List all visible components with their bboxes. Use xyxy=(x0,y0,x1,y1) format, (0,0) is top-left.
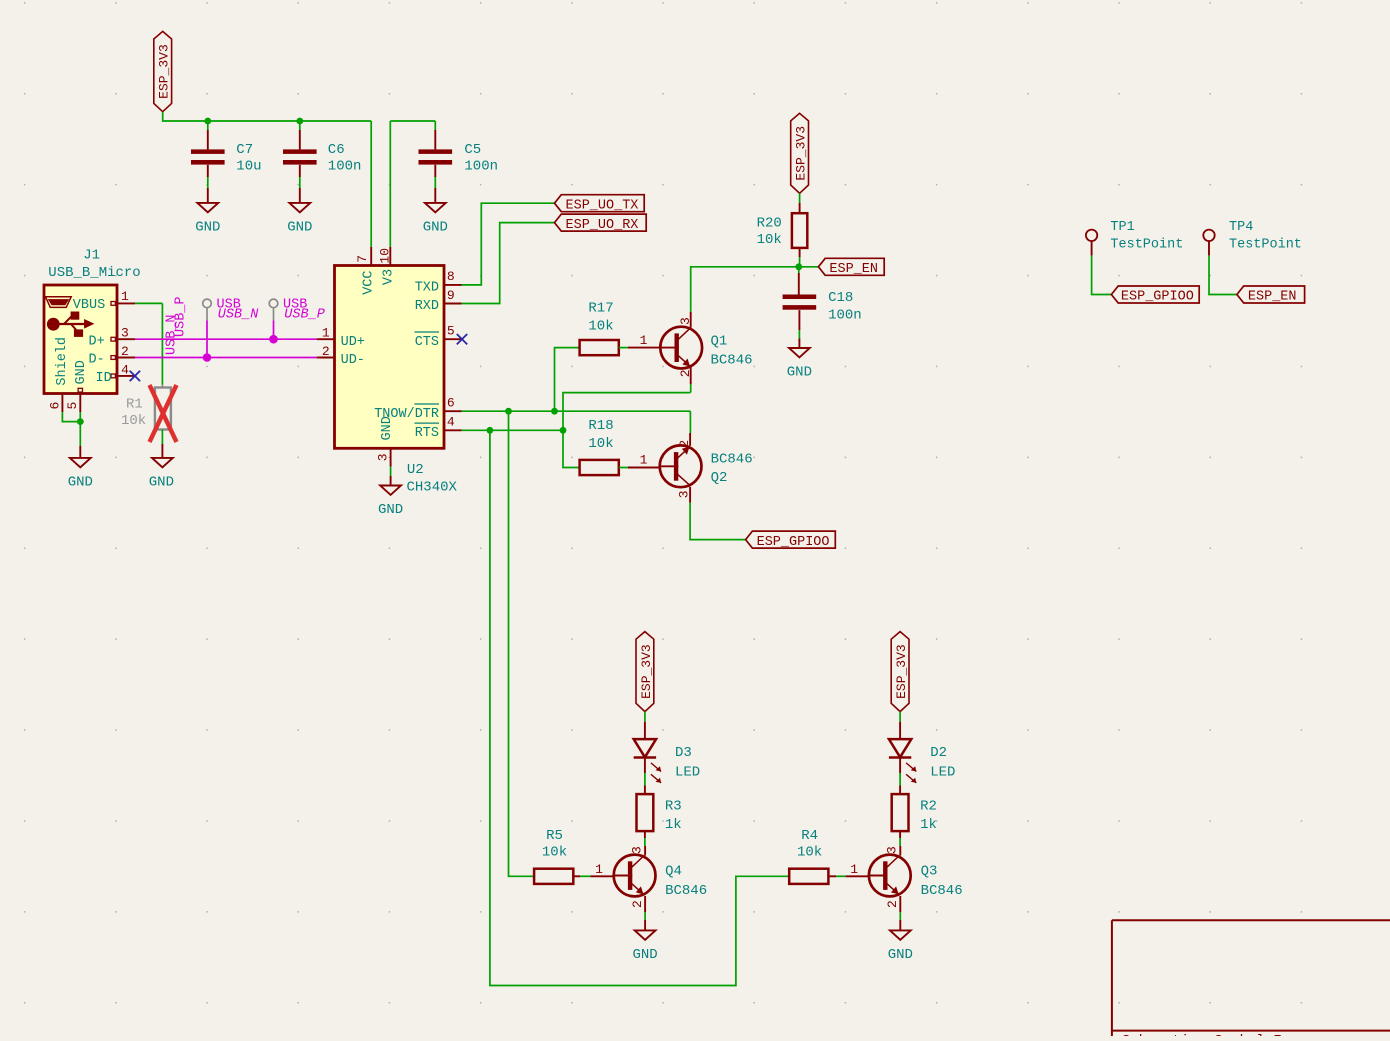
svg-text:5: 5 xyxy=(65,402,80,410)
U2 pin 9 RXD xyxy=(444,303,462,305)
wire TP1 to ESP_GPIO0 xyxy=(1091,241,1093,256)
J1 pin 3 D+ xyxy=(117,338,135,340)
junction RTS/R18 xyxy=(560,427,567,434)
svg-text:GND: GND xyxy=(423,220,448,236)
svg-text:10k: 10k xyxy=(121,413,146,429)
hierarchical label ESP_GPIOO xyxy=(1111,286,1199,305)
svg-text:GND: GND xyxy=(287,220,312,236)
svg-text:GND: GND xyxy=(380,416,395,440)
wire Q1 emitter to RTS to R18 xyxy=(563,393,690,468)
svg-text:Q2: Q2 xyxy=(711,470,728,486)
capacitor C6 xyxy=(283,142,361,175)
J1 pin 6 Shield xyxy=(61,394,63,413)
svg-text:USB_B_Micro: USB_B_Micro xyxy=(48,265,140,281)
svg-text:U2: U2 xyxy=(407,462,424,478)
svg-text:100n: 100n xyxy=(464,159,498,175)
resistor R20 xyxy=(757,213,808,248)
hierarchical label ESP_EN xyxy=(818,258,884,277)
U2 pin 6 TNOW/DTR xyxy=(444,410,462,412)
svg-text:Q1: Q1 xyxy=(711,334,728,350)
svg-text:1: 1 xyxy=(121,289,129,304)
wire R17 to Q1 base xyxy=(619,347,628,349)
svg-text:R3: R3 xyxy=(665,799,682,815)
DNP cross on R1 xyxy=(150,385,177,442)
J1 usb trident icon xyxy=(47,312,95,337)
power flag PWR02 ESP_3V3 xyxy=(791,113,809,193)
junction ESP_EN xyxy=(795,263,802,270)
wire D+ net USB_P xyxy=(135,338,317,340)
svg-text:C6: C6 xyxy=(328,142,345,158)
ground C6 xyxy=(287,203,312,236)
no-connect flag xyxy=(130,371,140,381)
svg-text:USB_N: USB_N xyxy=(218,308,259,323)
resistor R2 xyxy=(892,794,937,833)
svg-text:LED: LED xyxy=(675,764,700,780)
hierarchical label ESP_GPIOO xyxy=(746,531,836,550)
svg-text:GND: GND xyxy=(787,365,812,381)
wire C6 top lead xyxy=(299,121,301,130)
svg-text:10k: 10k xyxy=(588,436,613,452)
svg-text:10: 10 xyxy=(377,248,392,264)
capacitor C18 xyxy=(783,290,862,323)
svg-text:ESP_3V3: ESP_3V3 xyxy=(894,644,909,699)
svg-text:GND: GND xyxy=(195,220,220,236)
svg-text:BC846: BC846 xyxy=(711,452,753,468)
power flag PWR03 ESP_3V3 xyxy=(636,632,654,712)
svg-text:RXD: RXD xyxy=(415,299,439,314)
svg-text:9: 9 xyxy=(447,288,455,303)
wire R18 to Q2 base xyxy=(619,467,628,469)
wire junction to label xyxy=(799,266,819,268)
wire VBUS to R1 xyxy=(135,302,162,304)
resistor R17 xyxy=(580,301,619,356)
svg-text:100n: 100n xyxy=(828,307,862,323)
svg-text:Q3: Q3 xyxy=(921,864,938,880)
transistor Q2 BC846 xyxy=(660,445,702,487)
svg-text:TXD: TXD xyxy=(415,280,439,295)
svg-text:C5: C5 xyxy=(464,142,481,158)
svg-text:3: 3 xyxy=(629,846,644,854)
svg-text:R5: R5 xyxy=(546,828,563,844)
svg-text:ESP_3V3: ESP_3V3 xyxy=(794,126,809,181)
wire DTR net xyxy=(462,410,691,412)
resistor R5 xyxy=(534,828,573,884)
svg-text:ESP_UO_RX: ESP_UO_RX xyxy=(566,218,639,233)
resistor R18 xyxy=(580,418,619,475)
junction USB_N xyxy=(203,353,212,362)
U2 pin 2 UD- xyxy=(317,357,335,359)
wire C5 top lead xyxy=(434,121,436,130)
svg-text:USB_P: USB_P xyxy=(284,308,325,323)
svg-text:C7: C7 xyxy=(236,142,253,158)
svg-text:GND: GND xyxy=(888,947,913,963)
wire R5 to Q4 base xyxy=(573,875,580,877)
svg-text:100n: 100n xyxy=(328,159,362,175)
resistor R1 (DNP) xyxy=(161,385,163,388)
svg-text:BC846: BC846 xyxy=(665,883,707,899)
wire flag to D3 xyxy=(644,712,646,722)
wire U2 gnd xyxy=(390,467,392,476)
svg-text:GND: GND xyxy=(378,502,403,518)
svg-text:TestPoint: TestPoint xyxy=(1229,238,1302,253)
svg-text:ESP_3V3: ESP_3V3 xyxy=(639,644,654,699)
svg-text:RTS: RTS xyxy=(415,426,439,441)
hierarchical label ESP_EN xyxy=(1237,286,1305,305)
svg-text:BC846: BC846 xyxy=(711,352,753,368)
resistor R4 xyxy=(789,828,828,884)
wire Q3 emitter to gnd xyxy=(899,896,901,912)
LED D2 xyxy=(889,739,956,783)
power flag PWR01 ESP_3V3 xyxy=(154,31,172,111)
svg-text:R18: R18 xyxy=(588,418,613,434)
svg-text:1: 1 xyxy=(595,862,603,877)
capacitor C7 xyxy=(191,142,262,175)
wire TP4 to ESP_EN xyxy=(1208,241,1210,256)
U2 pin 10 V3 xyxy=(389,247,391,266)
svg-text:VCC: VCC xyxy=(362,270,377,294)
wire C7 bottom lead xyxy=(207,165,209,177)
svg-text:4: 4 xyxy=(121,363,129,378)
wire flag to D2 xyxy=(899,712,901,722)
wire RTS net xyxy=(462,429,564,431)
svg-text:D3: D3 xyxy=(675,745,692,761)
U2 pin 1 UD+ xyxy=(317,338,335,340)
svg-text:LED: LED xyxy=(930,764,955,780)
title block frame xyxy=(1112,920,1390,1041)
wire junction to C18 xyxy=(798,267,800,273)
wire D- net USB_N xyxy=(135,357,317,359)
resistor R3 xyxy=(637,794,682,833)
usb port 1 USB_N xyxy=(203,298,260,358)
J1 pin 1 VBUS xyxy=(117,302,135,304)
svg-text:4: 4 xyxy=(447,415,455,430)
svg-text:ESP_GPIOO: ESP_GPIOO xyxy=(1121,290,1194,305)
svg-text:6: 6 xyxy=(47,402,62,410)
svg-text:Shield: Shield xyxy=(55,337,70,386)
svg-text:1k: 1k xyxy=(665,817,682,833)
svg-text:ESP_UO_TX: ESP_UO_TX xyxy=(566,198,639,213)
svg-text:BC846: BC846 xyxy=(921,883,963,899)
svg-text:J1: J1 xyxy=(83,248,100,264)
wire C18 to gnd xyxy=(798,310,800,330)
wire C7 top lead xyxy=(207,121,209,130)
connector J1 USB_B_Micro body xyxy=(44,285,117,394)
svg-text:ESP_EN: ESP_EN xyxy=(829,262,878,277)
ground U2 xyxy=(378,486,403,519)
svg-text:CTS: CTS xyxy=(415,335,439,350)
svg-text:10k: 10k xyxy=(757,232,782,248)
svg-text:2: 2 xyxy=(121,344,129,359)
no-connect flag xyxy=(457,334,467,344)
svg-text:R4: R4 xyxy=(801,828,818,844)
test point TP4 xyxy=(1203,220,1302,253)
svg-text:UD-: UD- xyxy=(341,353,365,368)
wire RTS long vertical to R4 xyxy=(490,430,789,985)
U2 pin 7 VCC xyxy=(370,247,372,266)
test point TP1 xyxy=(1086,220,1183,253)
wire R2 to Q3 collector xyxy=(899,831,901,838)
svg-text:D+: D+ xyxy=(89,335,105,350)
capacitor C5 xyxy=(419,142,499,175)
svg-text:10k: 10k xyxy=(542,845,567,861)
wire R3 to Q4 collector xyxy=(644,831,646,838)
svg-text:ESP_3V3: ESP_3V3 xyxy=(157,44,172,99)
transistor Q1 BC846 xyxy=(660,327,702,369)
svg-text:10k: 10k xyxy=(797,845,822,861)
svg-text:1: 1 xyxy=(322,326,330,341)
svg-text:D-: D- xyxy=(89,353,105,368)
svg-text:1: 1 xyxy=(640,453,648,468)
transistor Q3 BC846 xyxy=(869,855,911,897)
junction J1 gnd xyxy=(77,418,84,425)
svg-text:3: 3 xyxy=(121,325,129,340)
wire V3 to C5 xyxy=(390,120,435,122)
hierarchical label ESP_UO_RX xyxy=(555,214,647,233)
svg-text:2: 2 xyxy=(885,900,900,908)
wire J1 shield/gnd join xyxy=(62,412,80,422)
svg-text:GND: GND xyxy=(149,475,174,491)
svg-text:UD+: UD+ xyxy=(341,335,365,350)
wire ESP_3V3 rail xyxy=(163,112,372,121)
wire D3 to R3 xyxy=(644,758,646,774)
J1 usb plug icon xyxy=(46,297,72,308)
hierarchical label ESP_UO_TX xyxy=(555,195,645,214)
svg-text:ESP_EN: ESP_EN xyxy=(1248,290,1297,305)
ground Q3 xyxy=(888,930,913,963)
ground Q4 xyxy=(632,930,657,963)
wire C6 bottom lead xyxy=(299,165,301,177)
LED D3 xyxy=(634,739,701,783)
svg-text:3: 3 xyxy=(375,453,390,461)
svg-text:TP4: TP4 xyxy=(1229,220,1253,235)
wire DTR long vertical to R5 xyxy=(509,411,535,876)
svg-text:ID: ID xyxy=(96,371,112,386)
svg-text:R2: R2 xyxy=(920,799,937,815)
svg-text:6: 6 xyxy=(447,396,455,411)
junction at C7 xyxy=(204,118,211,125)
wire DTR up to R17 xyxy=(555,348,580,412)
wire R4 to Q3 base xyxy=(829,875,836,877)
svg-text:8: 8 xyxy=(447,269,455,284)
svg-text:10u: 10u xyxy=(236,159,261,175)
usb port 2 USB_P xyxy=(269,298,325,340)
wire flag to R20 xyxy=(799,193,801,203)
svg-text:3: 3 xyxy=(885,846,900,854)
junction USB_P xyxy=(269,335,278,344)
wire Q2 emitter up to DTR xyxy=(689,411,691,433)
transistor Q4 BC846 xyxy=(614,855,656,897)
svg-text:1k: 1k xyxy=(920,817,937,833)
svg-text:TestPoint: TestPoint xyxy=(1110,238,1183,253)
J1 pin 4 ID xyxy=(117,375,135,377)
ground C7 xyxy=(195,203,220,236)
ground C5 xyxy=(423,203,448,236)
svg-text:TP1: TP1 xyxy=(1110,220,1134,235)
power flag PWR04 ESP_3V3 xyxy=(891,632,909,712)
svg-text:R1: R1 xyxy=(126,397,143,413)
wire RXD to ESP_U0_RX xyxy=(462,223,555,304)
U2 pin 5 CTS xyxy=(444,338,462,340)
svg-text:1: 1 xyxy=(640,333,648,348)
ground R1 xyxy=(149,458,174,491)
svg-text:CH340X: CH340X xyxy=(407,479,458,495)
wire C5 bottom lead xyxy=(434,165,436,177)
svg-text:2: 2 xyxy=(322,344,330,359)
svg-text:7: 7 xyxy=(355,255,370,263)
svg-text:GND: GND xyxy=(74,360,89,384)
svg-text:USB_P: USB_P xyxy=(173,296,188,337)
svg-text:Q4: Q4 xyxy=(665,864,682,880)
U2 pin 4 RTS xyxy=(444,429,462,431)
svg-text:GND: GND xyxy=(632,947,657,963)
svg-text:V3: V3 xyxy=(382,269,397,285)
svg-text:5: 5 xyxy=(447,324,455,339)
U2 pin 8 TXD xyxy=(444,284,462,286)
junction at C6 xyxy=(296,118,303,125)
svg-text:R17: R17 xyxy=(588,301,613,317)
wire to U2 pin 10 xyxy=(389,121,391,247)
ground C18 xyxy=(787,348,812,381)
svg-text:10k: 10k xyxy=(588,319,613,335)
svg-text:R20: R20 xyxy=(757,216,782,232)
U2 pin 3 GND xyxy=(390,448,392,466)
junction RTS down xyxy=(487,427,494,434)
ground J1 xyxy=(68,458,93,491)
wire TXD to ESP_U0_TX xyxy=(462,203,555,285)
wire to U2 pin 7 xyxy=(370,121,372,247)
IC U2 CH340X body xyxy=(335,266,445,449)
junction DTR/R17 xyxy=(551,408,558,415)
J1 pin 5 GND xyxy=(79,394,81,413)
wire R20 to ESP_EN junction xyxy=(799,248,801,257)
svg-text:VBUS: VBUS xyxy=(73,298,105,313)
wire Q4 emitter to gnd xyxy=(644,896,646,912)
svg-text:GND: GND xyxy=(68,475,93,491)
junction DTR down xyxy=(505,408,512,415)
J1 pin 2 D- xyxy=(117,357,135,359)
svg-text:ESP_GPIOO: ESP_GPIOO xyxy=(757,535,830,550)
svg-text:C18: C18 xyxy=(828,290,853,306)
wire D2 to R2 xyxy=(899,758,901,774)
svg-text:1: 1 xyxy=(850,862,858,877)
svg-text:2: 2 xyxy=(630,900,645,908)
svg-text:D2: D2 xyxy=(930,745,947,761)
